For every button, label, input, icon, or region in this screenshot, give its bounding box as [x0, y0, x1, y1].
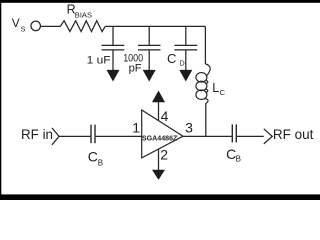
- svg-text:RF out: RF out: [273, 127, 314, 142]
- ground arrow under C2: [143, 70, 156, 82]
- pin 2 down arrow: [152, 170, 165, 180]
- svg-text:B: B: [236, 155, 241, 164]
- node Vs terminal: [31, 21, 41, 31]
- port RF out chevron: [264, 129, 273, 144]
- capacitor CD: [174, 26, 197, 70]
- pin 4 up arrow: [152, 91, 165, 103]
- svg-text:RF in: RF in: [21, 127, 53, 142]
- capacitor C1 1uF: [102, 26, 125, 70]
- svg-text:1: 1: [132, 120, 140, 136]
- resistor RBIAS: [60, 21, 105, 32]
- svg-text:2: 2: [160, 146, 168, 162]
- wire RF in to CB: [59, 135, 90, 137]
- pin 2 wire: [158, 149, 160, 170]
- capacitor CB output: [232, 124, 236, 142]
- wire amp pin3 to CB out: [183, 135, 232, 137]
- capacitor CB input: [91, 125, 95, 144]
- svg-text:pF: pF: [129, 62, 142, 74]
- svg-text:S: S: [21, 24, 26, 33]
- wire top rail: [105, 25, 205, 27]
- svg-text:C: C: [167, 51, 176, 66]
- svg-text:BIAS: BIAS: [75, 11, 92, 20]
- svg-text:4: 4: [161, 108, 169, 124]
- ground arrow under CD: [179, 70, 192, 82]
- wire CB out to RF out: [237, 135, 264, 137]
- capacitor C2 1000pF: [138, 26, 161, 70]
- wire Vs to resistor: [40, 25, 60, 27]
- port RF in chevron: [52, 128, 59, 145]
- svg-text:D: D: [180, 60, 185, 67]
- svg-text:SGA4486Z: SGA4486Z: [142, 134, 178, 143]
- border frame: [0, 0, 320, 3]
- svg-text:V: V: [12, 16, 20, 30]
- svg-text:1 uF: 1 uF: [87, 55, 111, 67]
- svg-text:3: 3: [185, 120, 193, 136]
- ground arrow under C1: [107, 70, 120, 82]
- svg-text:L: L: [212, 81, 219, 95]
- svg-text:C: C: [88, 149, 98, 165]
- inductor LC: [196, 26, 210, 136]
- svg-text:B: B: [98, 158, 103, 167]
- pin 4 wire: [158, 102, 160, 121]
- wire CB to amp pin1: [96, 135, 142, 137]
- op-amp U1 SGA4486Z triangle: [142, 110, 183, 158]
- svg-text:C: C: [220, 88, 226, 97]
